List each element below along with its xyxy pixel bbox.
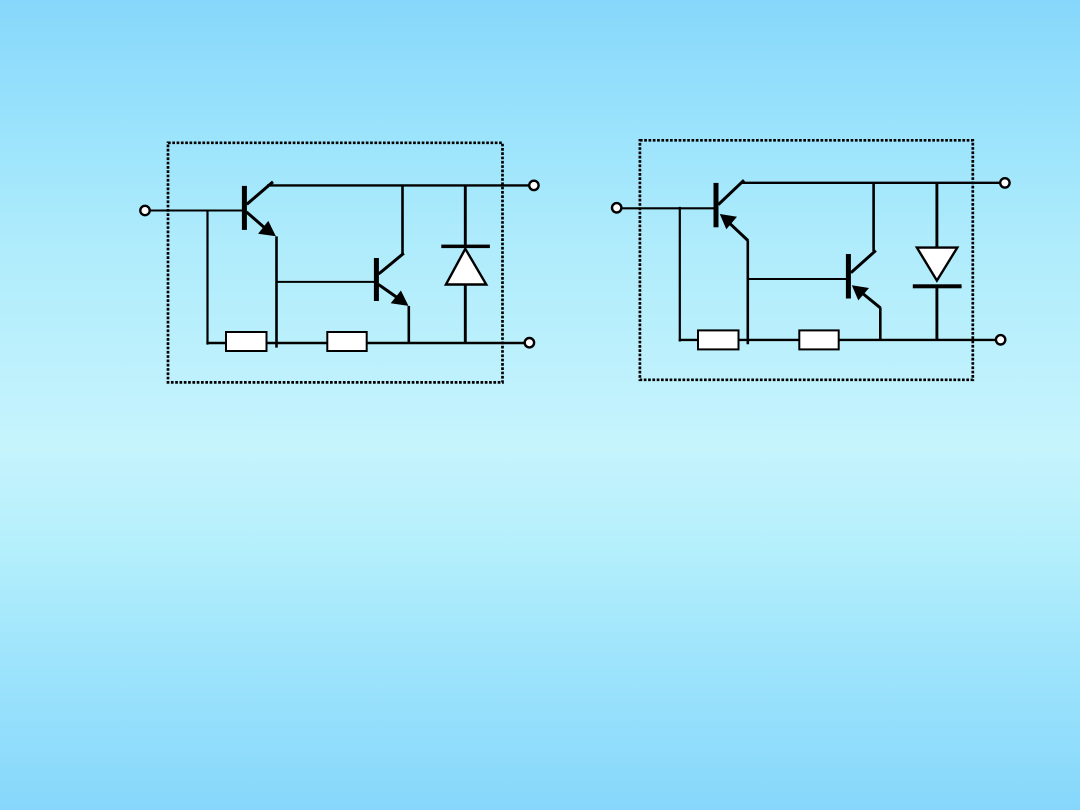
wire: left top rail (collector bus)	[267, 184, 530, 186]
wire: Q3 emitter diagonal shaft	[727, 220, 749, 240]
diode D1 triangle (anode, pointing up)	[446, 249, 486, 285]
transistor Q2 emitter arrowhead (NPN, pointing out)	[391, 291, 409, 306]
wire: Q2 emitter diagonal shaft	[379, 285, 399, 299]
wire: left input lead	[146, 210, 243, 212]
terminal: right module collector output	[1000, 178, 1009, 187]
resistor R2 (left module)	[327, 332, 366, 351]
wire: Q1 collector diagonal	[247, 182, 273, 205]
wire: left bottom rail (emitter bus)	[206, 342, 526, 344]
wire: right top rail (collector bus)	[741, 182, 1001, 184]
wire: diode D1 bottom vertical	[464, 284, 467, 345]
transistor Q3 base bar	[714, 183, 719, 227]
dashed enclosure box (right PNP darlington module)	[640, 140, 973, 379]
wire: Q3 collector diagonal	[718, 180, 744, 204]
transistor Q1 emitter arrowhead (NPN, pointing out)	[258, 221, 276, 236]
wire: Q4 emitter diagonal shaft	[862, 293, 881, 308]
wire: Q3 emitter to Q4 base link	[747, 278, 847, 280]
wire: diode D2 top vertical	[935, 182, 938, 249]
wire: Q4 collector vertical riser	[872, 183, 875, 252]
terminal: right module input	[612, 203, 621, 212]
wire: diode D1 top vertical	[464, 185, 467, 247]
wire: Q1 emitter to Q2 base link	[276, 281, 375, 283]
diode D2 triangle (anode, pointing down)	[917, 248, 957, 281]
wire: Q1 emitter vertical drop	[275, 236, 278, 347]
wire: left bias vertical from input node	[206, 210, 208, 345]
wire: right bottom rail (emitter bus)	[679, 339, 997, 341]
wire: Q4 collector diagonal	[851, 251, 876, 273]
resistor R3 (right module)	[698, 330, 739, 349]
diode D2 cathode bar	[913, 284, 962, 288]
resistor R1 (left module)	[226, 332, 267, 351]
dashed enclosure box (left NPN darlington module)	[168, 143, 503, 383]
wire: diode D2 bottom vertical	[935, 286, 938, 341]
diode D1 cathode bar	[441, 245, 490, 249]
terminal: left module input	[140, 206, 149, 215]
wire: Q2 collector vertical riser	[401, 185, 404, 254]
transistor Q3 emitter arrowhead (PNP, pointing in)	[720, 214, 737, 229]
wire: Q1 emitter diagonal shaft	[247, 212, 267, 229]
resistor R4 (right module)	[799, 330, 838, 349]
transistor Q2 base bar	[374, 258, 379, 301]
transistor Q4 base bar	[846, 254, 851, 299]
terminal: left module emitter output	[525, 338, 534, 347]
terminal: left module collector output	[529, 181, 538, 190]
wire: Q2 collector diagonal	[379, 253, 404, 274]
wire: right bias vertical from input node	[679, 207, 681, 342]
wire: Q3 emitter vertical drop	[746, 240, 749, 344]
transistor Q4 emitter arrowhead (PNP, pointing in)	[852, 285, 869, 300]
wire: right input lead	[618, 207, 714, 209]
transistor Q1 base bar	[242, 186, 247, 230]
terminal: right module emitter output	[996, 335, 1005, 344]
wire: Q2 emitter vertical drop	[407, 306, 410, 344]
wire: Q4 emitter vertical drop	[879, 307, 882, 340]
